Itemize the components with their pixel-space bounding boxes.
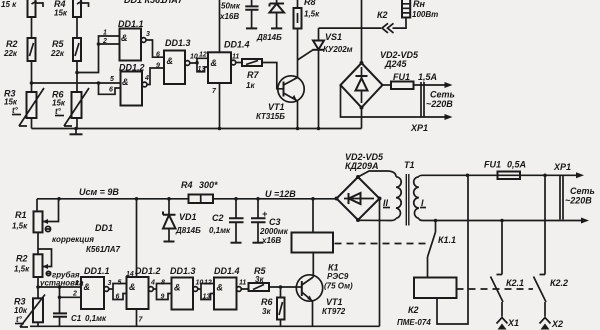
svg-text:DD1.2: DD1.2 xyxy=(119,63,145,73)
wire VT1 collector to K1 xyxy=(312,253,314,278)
svg-text:0,5А: 0,5А xyxy=(507,160,526,170)
VS1 gate wire xyxy=(298,50,314,60)
svg-text:22к: 22к xyxy=(50,49,65,58)
svg-text:13: 13 xyxy=(203,294,211,301)
thyristor VS1 KU202M xyxy=(318,28,320,40)
wire DD1.3 out to DD1.4 pins 12,13 xyxy=(198,284,214,300)
terminal X2 xyxy=(540,318,551,324)
svg-text:1,5к: 1,5к xyxy=(12,222,28,231)
transformer T1 core xyxy=(406,174,409,226)
gate DD1.3 (bottom) xyxy=(172,278,194,310)
gate DD1.2 xyxy=(121,72,143,106)
bridge rectifier VD2-VD5 KD209A xyxy=(337,177,380,220)
svg-text:КТ972: КТ972 xyxy=(322,307,346,316)
svg-text:R2: R2 xyxy=(16,254,28,264)
svg-text:R5: R5 xyxy=(52,39,64,49)
wire DD1.1 out to DD1.2 pins 5,6 xyxy=(109,284,127,300)
resistor R1 (trimmer, top clipped) xyxy=(28,0,36,17)
svg-text:15к: 15к xyxy=(54,9,68,18)
svg-text:DD1 К561ЛА7: DD1 К561ЛА7 xyxy=(124,0,184,5)
wire DD1.1 out to DD1.3 pin6 xyxy=(146,40,164,57)
svg-text:R1: R1 xyxy=(15,210,27,220)
svg-text:0,1мк: 0,1мк xyxy=(209,226,231,235)
svg-text:5: 5 xyxy=(110,76,114,83)
svg-text:VT1: VT1 xyxy=(326,297,343,307)
gate DD1.4 xyxy=(208,52,231,83)
svg-text:&: & xyxy=(174,283,181,293)
svg-text:~220В: ~220В xyxy=(426,99,453,109)
wire bridge right corner down to bottom rail xyxy=(379,199,381,327)
gate DD1.1 (bottom) xyxy=(81,277,104,309)
svg-text:R2: R2 xyxy=(6,39,18,49)
svg-text:DD1.4: DD1.4 xyxy=(214,266,240,276)
fuse FU1 1.5A xyxy=(383,84,392,86)
svg-text:II: II xyxy=(383,198,389,208)
svg-text:К1: К1 xyxy=(328,263,339,273)
svg-text:4: 4 xyxy=(150,280,155,287)
rail wire right (12V) xyxy=(213,198,337,200)
wire T1 primary top to mains xyxy=(419,175,578,177)
ground xyxy=(75,129,77,135)
transistor VT1 KT315B xyxy=(278,76,304,102)
relay K1 RES9 xyxy=(292,233,334,253)
svg-text:КД209А: КД209А xyxy=(345,161,379,171)
common bus wire xyxy=(32,128,362,130)
transformer T1 primary I xyxy=(414,177,419,218)
node K2 coil feed xyxy=(466,174,470,178)
svg-text:ХР1: ХР1 xyxy=(553,162,571,172)
wire R1-R2 xyxy=(37,232,39,254)
svg-text:DD1.1: DD1.1 xyxy=(84,266,110,276)
wire R2-R3 xyxy=(31,61,33,92)
svg-text:3: 3 xyxy=(108,280,112,287)
gate DD1.3 xyxy=(164,51,185,85)
svg-text:К2.2: К2.2 xyxy=(550,278,568,288)
connector XP1 bars xyxy=(560,175,563,219)
svg-text:1: 1 xyxy=(103,30,107,37)
wire bridge left to mains lower xyxy=(341,85,448,117)
svg-text:8: 8 xyxy=(161,280,165,287)
svg-text:I: I xyxy=(421,198,424,208)
svg-text:РЭС9: РЭС9 xyxy=(327,272,349,281)
svg-text:К2: К2 xyxy=(377,10,388,20)
svg-text:DD1.4: DD1.4 xyxy=(224,40,250,50)
wire R7 to VT1 base xyxy=(262,63,284,89)
svg-text:50мк: 50мк xyxy=(221,2,241,11)
svg-text:С1: С1 xyxy=(71,314,82,323)
node K1.1 tap xyxy=(434,219,438,223)
wire DD1.4 out to R7 xyxy=(236,62,242,64)
svg-text:К2: К2 xyxy=(408,305,419,315)
svg-text:коррекция: коррекция xyxy=(52,235,94,244)
svg-text:Д814Б: Д814Б xyxy=(256,33,282,42)
svg-text:Сеть: Сеть xyxy=(430,90,455,100)
wire R1-R2 xyxy=(31,17,33,38)
wire DD1.4 out to R5 xyxy=(241,287,248,289)
svg-text:13: 13 xyxy=(198,66,206,73)
svg-text:&: & xyxy=(129,282,136,292)
wire K2 coil to mains top xyxy=(437,175,468,324)
transformer T1 secondary II xyxy=(396,177,401,218)
node K2.2 feed xyxy=(543,174,547,178)
svg-text:6: 6 xyxy=(116,294,120,301)
wire R8 to VT1 collector / VS1 gate xyxy=(297,29,299,78)
svg-text:1к: 1к xyxy=(246,81,255,90)
resistor R5 3k xyxy=(249,283,270,291)
svg-text:1,5к: 1,5к xyxy=(304,10,320,19)
svg-text:КУ202м: КУ202м xyxy=(323,45,353,54)
gate DD1.4 (bottom) xyxy=(214,278,237,310)
svg-text:К1.1: К1.1 xyxy=(438,235,456,245)
svg-text:3к: 3к xyxy=(255,275,264,284)
bridge rectifier VD2-VD5 D245 xyxy=(341,63,383,108)
wire T1 secondary bottom to bridge bottom xyxy=(358,218,396,220)
contact K1.1 xyxy=(428,221,436,278)
wire R4-R5 xyxy=(76,17,78,38)
load Rn 100W (heater) xyxy=(402,0,410,18)
svg-text:1,5к: 1,5к xyxy=(14,265,30,274)
resistor R4 (trimmer, top clipped) xyxy=(73,0,81,17)
svg-text:~220В: ~220В xyxy=(565,196,592,206)
node divider2 xyxy=(75,71,79,75)
gate DD1.2 (bottom) xyxy=(127,277,149,309)
svg-text:15 к: 15 к xyxy=(1,0,17,9)
potentiometer R1 1.5k (korrektsiya) xyxy=(36,199,38,212)
wire R5 to VT1 base / R6 node xyxy=(269,286,302,288)
gate DD1.1 xyxy=(120,29,142,61)
svg-text:DD1.3: DD1.3 xyxy=(170,266,196,276)
svg-text:22к: 22к xyxy=(3,49,18,58)
wire R2-R3 / node to pin1 xyxy=(38,277,81,298)
svg-text:Д814Б: Д814Б xyxy=(175,226,201,235)
transistor VT1 KT972 xyxy=(296,275,322,301)
resistor R6 3k xyxy=(280,287,282,298)
svg-text:11: 11 xyxy=(232,54,239,61)
svg-text:К561ЛА7: К561ЛА7 xyxy=(86,245,121,254)
svg-text:ХР1: ХР1 xyxy=(410,123,428,133)
svg-text:&: & xyxy=(217,283,224,293)
svg-text:R6: R6 xyxy=(261,297,273,307)
svg-text:DD1: DD1 xyxy=(95,223,113,233)
svg-text:7: 7 xyxy=(212,88,217,95)
wire VS1 anode to K2 contact xyxy=(319,27,382,29)
contact K2.1 xyxy=(491,221,504,317)
svg-text:R7: R7 xyxy=(247,70,259,80)
capacitor C2 0.1mk xyxy=(235,199,237,218)
svg-text:300*: 300* xyxy=(199,180,218,190)
svg-text:12: 12 xyxy=(199,52,207,59)
svg-text:3к: 3к xyxy=(262,307,271,316)
capacitor C1 0.1mk xyxy=(53,313,67,316)
svg-text:&: & xyxy=(167,56,174,66)
capacitor 50mk x16V (electrolytic) xyxy=(251,0,253,6)
svg-text:1,5А: 1,5А xyxy=(418,72,437,82)
resistor R4 300 xyxy=(189,195,214,204)
svg-text:14: 14 xyxy=(126,271,134,278)
pin 14 wire to rail xyxy=(219,0,221,52)
svg-text:&: & xyxy=(84,282,91,292)
svg-text:Uсм = 9В: Uсм = 9В xyxy=(79,187,119,197)
svg-text:4: 4 xyxy=(144,75,149,82)
contact K2.2 xyxy=(534,175,547,316)
svg-text:0,1мк: 0,1мк xyxy=(85,314,107,323)
svg-text:VS1: VS1 xyxy=(325,32,342,42)
svg-text:DD1.2: DD1.2 xyxy=(135,266,161,276)
mech link K2 to K2.1,K2.2 (dashed) xyxy=(457,288,534,290)
thermistor R3 15k xyxy=(27,92,37,118)
svg-text:VT1: VT1 xyxy=(268,102,285,112)
rail wire left (9V) xyxy=(37,198,189,200)
wire T1 primary bottom to mains xyxy=(419,218,583,220)
wire net pins1-2 from divider2 xyxy=(77,36,120,73)
zener VD1 D814B xyxy=(168,199,170,215)
wire supply to bridge top xyxy=(361,0,363,63)
terminal X1 xyxy=(497,318,508,324)
wire node pin2 / C1 xyxy=(60,287,82,313)
svg-text:Х1: Х1 xyxy=(507,318,519,328)
connector XP1 bars xyxy=(421,82,424,117)
svg-text:12: 12 xyxy=(204,280,212,287)
svg-text:&: & xyxy=(122,77,129,87)
svg-text:Х2: Х2 xyxy=(551,319,563,329)
svg-text:Т1: Т1 xyxy=(404,160,415,170)
svg-text:х16В: х16В xyxy=(261,236,281,245)
svg-text:Rн: Rн xyxy=(413,0,425,9)
svg-text:3: 3 xyxy=(146,31,150,38)
node K2.1 tap xyxy=(500,219,504,223)
svg-text:х16В: х16В xyxy=(219,12,239,21)
svg-text:R8: R8 xyxy=(304,0,316,7)
wire K2 to Rn xyxy=(393,18,407,29)
svg-text:1: 1 xyxy=(75,280,79,287)
bottom common rail xyxy=(30,325,380,327)
svg-text:R4: R4 xyxy=(181,180,193,190)
svg-text:&: & xyxy=(121,33,128,43)
wire DD1.2 out to DD1.3 pin9 xyxy=(147,68,164,85)
svg-text:11: 11 xyxy=(239,280,246,287)
svg-text:&: & xyxy=(211,58,218,68)
svg-text:10к: 10к xyxy=(14,306,28,315)
wire R6 to bus xyxy=(76,118,78,129)
wire DD1.3 out to DD1.4 pins 12,13 xyxy=(190,58,208,72)
node divider1 xyxy=(30,81,34,85)
wire R5-R6 xyxy=(76,61,78,92)
pin 7 wire to bottom rail xyxy=(136,309,138,326)
svg-text:2: 2 xyxy=(102,38,107,45)
zener diode D814B (top) xyxy=(276,0,278,4)
svg-text:VD1: VD1 xyxy=(179,212,197,222)
resistor R8 1.5k xyxy=(297,0,299,8)
svg-text:(75 Ом): (75 Ом) xyxy=(324,282,353,291)
svg-text:КТ315Б: КТ315Б xyxy=(256,112,285,121)
wire bridge bottom to bus xyxy=(361,108,363,129)
thermistor R6 15k xyxy=(72,92,82,118)
svg-text:DD1.3: DD1.3 xyxy=(165,38,191,48)
svg-text:Сеть: Сеть xyxy=(570,186,595,196)
svg-text:R3: R3 xyxy=(14,297,26,307)
svg-text:2: 2 xyxy=(72,291,77,298)
wire net pins5-6 from divider1 xyxy=(32,83,121,94)
svg-text:ПМЕ-074: ПМЕ-074 xyxy=(397,318,431,327)
potentiometer R2 1.5k (grubaya ustanovka) xyxy=(34,254,43,277)
svg-text:100Вт: 100Вт xyxy=(412,10,438,19)
svg-text:DD1.1: DD1.1 xyxy=(118,19,144,29)
svg-text:К2.1: К2.1 xyxy=(506,278,524,288)
svg-text:9: 9 xyxy=(161,294,165,301)
wire DD1.2 out to DD1.3 pins 8,9 xyxy=(153,284,171,300)
resistor R7 1k xyxy=(242,59,262,66)
wire bridge top to T1 secondary xyxy=(358,171,396,177)
capacitor C3 2000mk x16V xyxy=(257,199,259,218)
thermistor R3 10k xyxy=(33,298,43,322)
contact K2 xyxy=(382,23,394,33)
relay K2 PME-074 xyxy=(414,278,457,299)
resistor R5 22k xyxy=(73,38,81,61)
svg-text:6: 6 xyxy=(156,52,160,59)
fuse FU1 0.5A xyxy=(498,172,521,180)
svg-text:Д245: Д245 xyxy=(384,59,408,69)
svg-text:6: 6 xyxy=(109,87,113,94)
svg-text:C2: C2 xyxy=(212,213,224,223)
svg-text:U =12В: U =12В xyxy=(265,189,296,199)
pin 7 wire to bus xyxy=(219,83,221,129)
resistor R2 22k xyxy=(28,38,36,61)
svg-text:5: 5 xyxy=(118,280,122,287)
pin 14 wire to rail xyxy=(136,199,138,277)
svg-text:FU1: FU1 xyxy=(393,72,410,82)
svg-text:2000мк: 2000мк xyxy=(259,227,289,236)
svg-text:С3: С3 xyxy=(269,217,281,227)
svg-text:9: 9 xyxy=(156,63,160,70)
svg-text:7: 7 xyxy=(139,317,144,324)
svg-text:+: + xyxy=(262,209,268,219)
wire R3 to bus xyxy=(31,118,33,129)
svg-text:FU1: FU1 xyxy=(484,160,501,170)
mech link K1 to K1.1 (dashed) xyxy=(335,243,430,245)
